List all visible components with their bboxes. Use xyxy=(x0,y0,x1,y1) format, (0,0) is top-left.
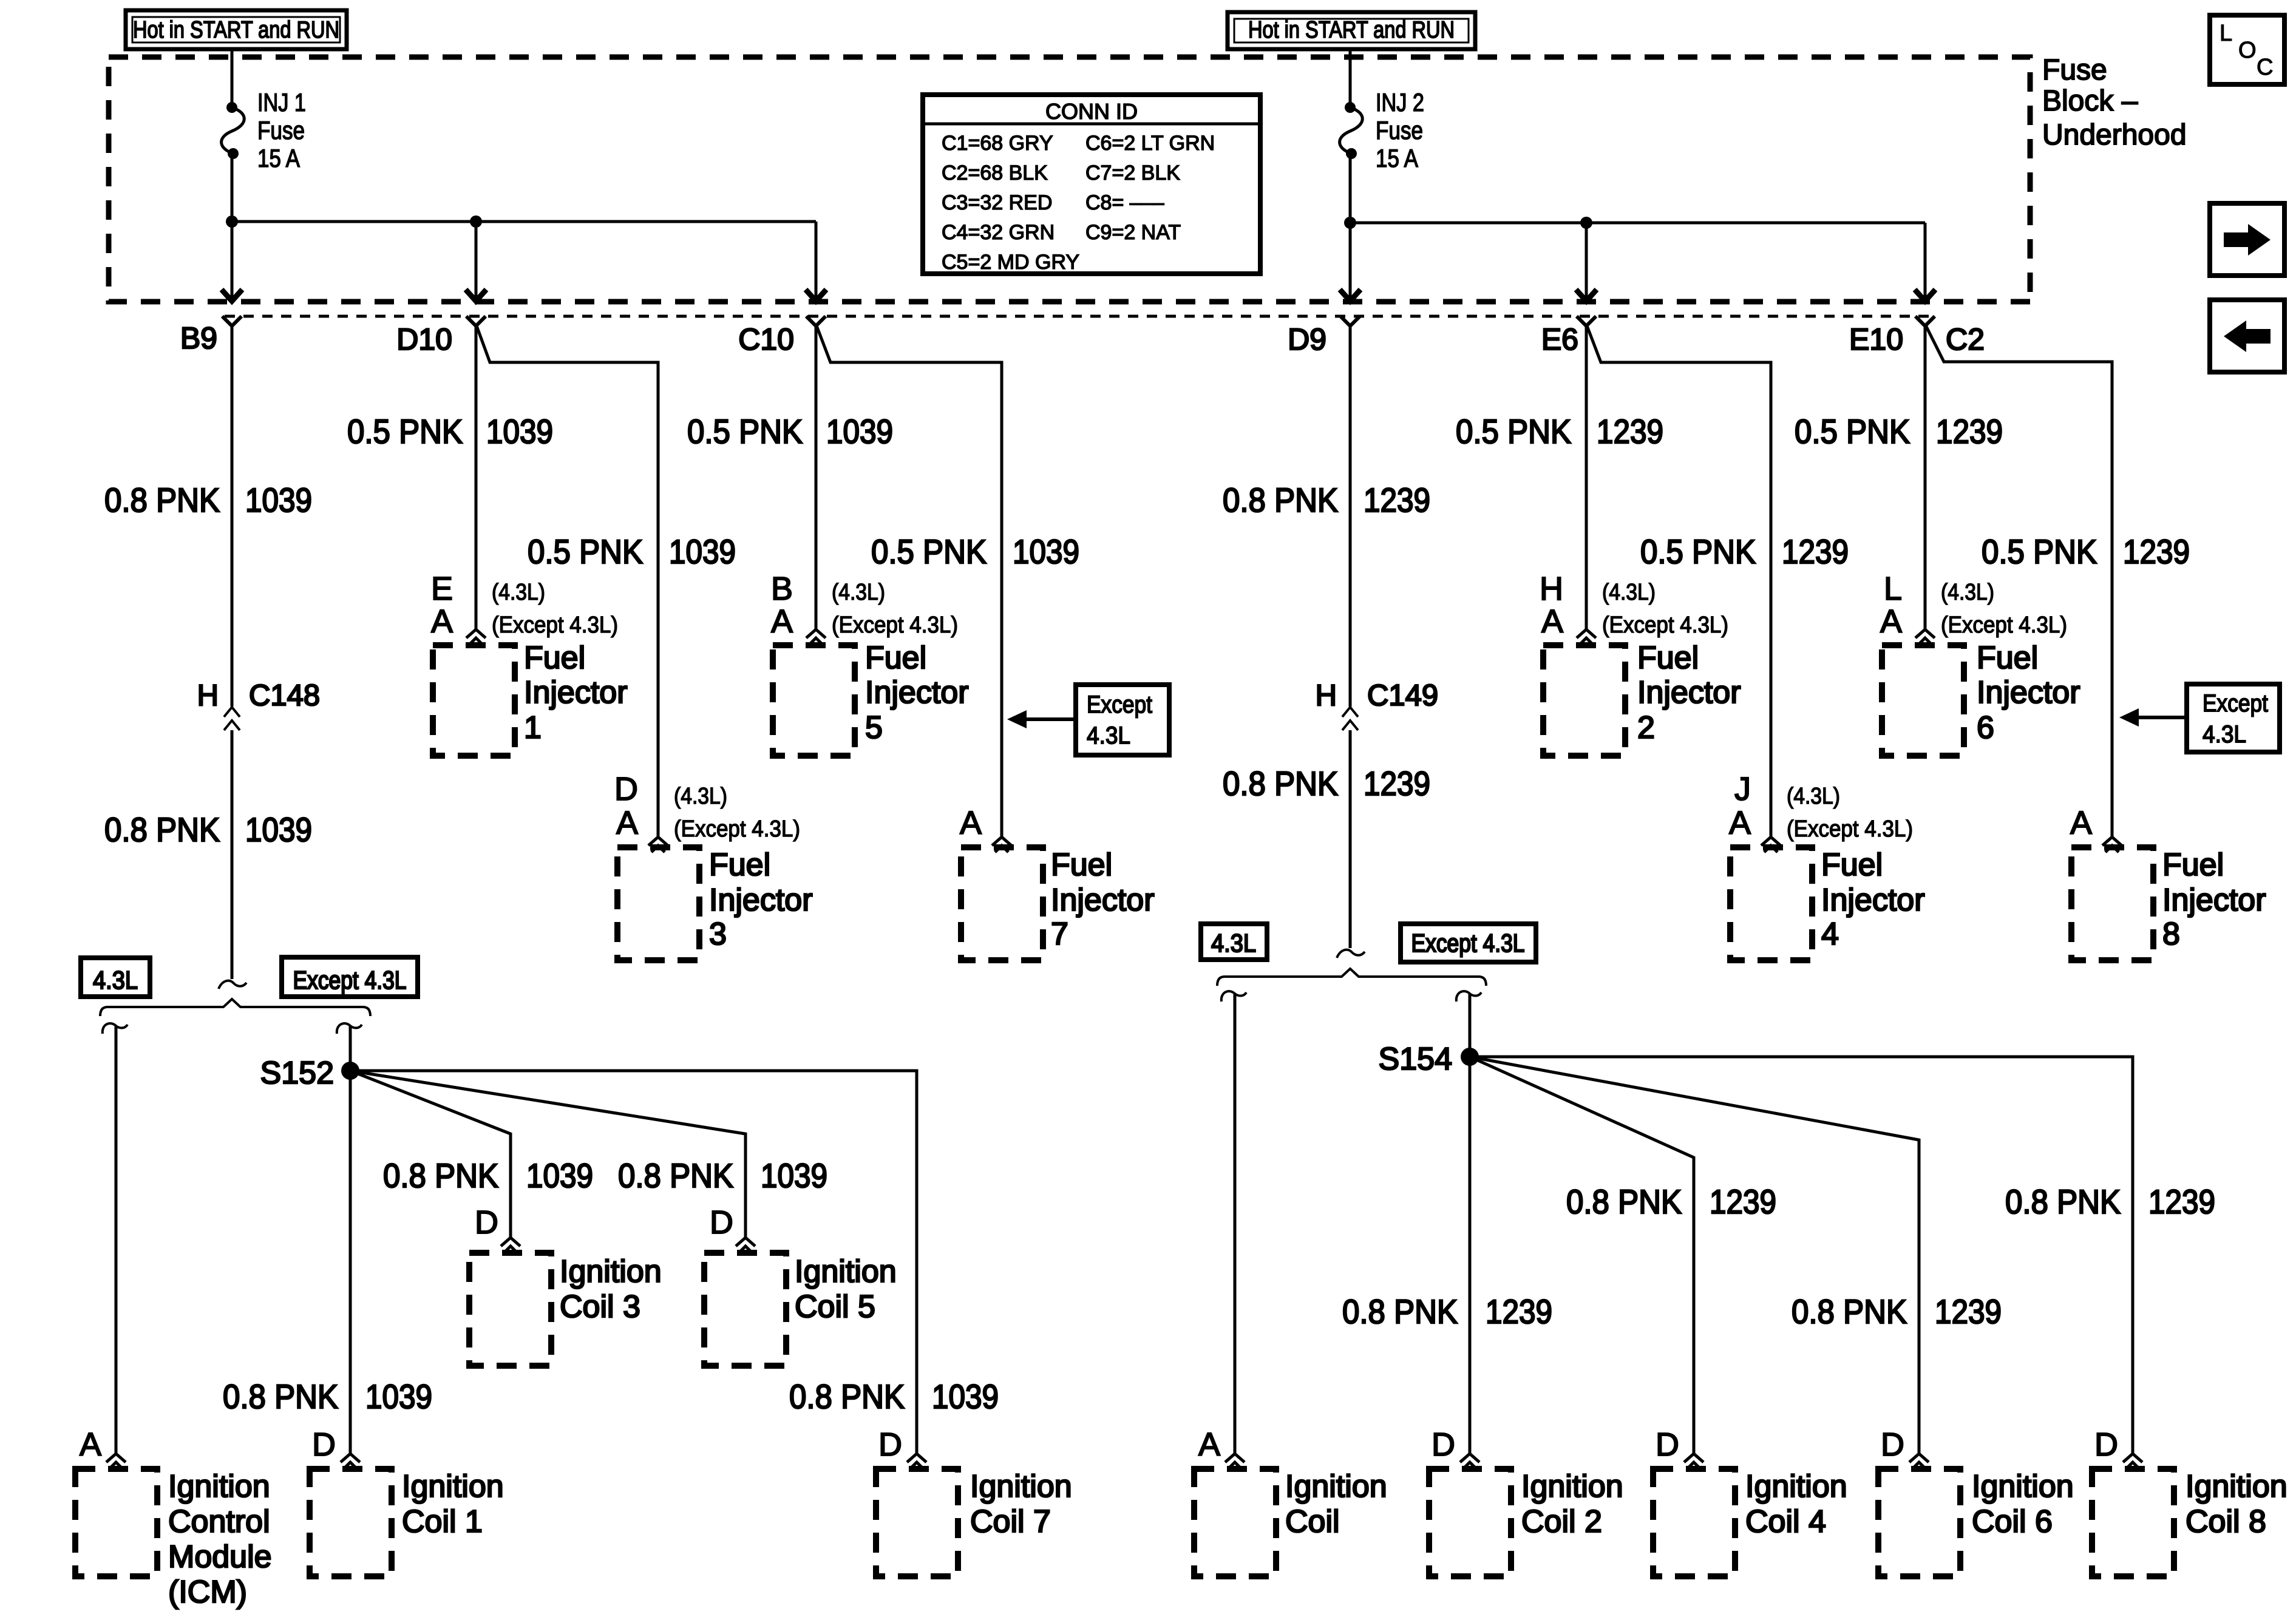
svg-text:1239: 1239 xyxy=(1364,764,1430,802)
ignition coil 3 xyxy=(469,1253,551,1366)
svg-text:E10: E10 xyxy=(1849,322,1903,356)
inline connector C148 pin H xyxy=(224,707,240,730)
wire 0.5 PNK 1239 from E6 to Fuel Injector 2 xyxy=(1585,324,1588,629)
svg-text:8: 8 xyxy=(2162,917,2180,952)
splice S154 xyxy=(1461,1048,1479,1066)
svg-text:C2: C2 xyxy=(1946,322,1985,356)
svg-text:(Except 4.3L): (Except 4.3L) xyxy=(1787,816,1913,842)
svg-text:4.3L: 4.3L xyxy=(1087,722,1130,749)
svg-text:(Except 4.3L): (Except 4.3L) xyxy=(832,612,958,638)
wire from INJ 2 fuse to branch xyxy=(1349,158,1352,223)
svg-text:Fuel: Fuel xyxy=(709,847,770,883)
svg-text:C8= –––: C8= ––– xyxy=(1085,191,1164,214)
svg-text:Ignition: Ignition xyxy=(168,1469,270,1504)
connector pins L/A at Fuel Injector 6 xyxy=(1915,629,1935,638)
svg-text:Injector: Injector xyxy=(1821,883,1925,918)
svg-text:D: D xyxy=(1432,1426,1455,1463)
svg-text:D: D xyxy=(614,771,638,807)
svg-text:Coil: Coil xyxy=(1285,1504,1340,1539)
wire end squiggle at 4.3L split (right) xyxy=(1337,950,1365,958)
svg-text:Injector: Injector xyxy=(865,675,969,710)
wire start squiggle (Except 4.3L branch left) xyxy=(337,1023,362,1034)
svg-text:0.5 PNK: 0.5 PNK xyxy=(1456,412,1571,450)
svg-text:C10: C10 xyxy=(738,322,794,356)
connector pin A at ignition coil (4.3L) xyxy=(1225,1454,1245,1462)
svg-text:Ignition: Ignition xyxy=(402,1469,504,1504)
svg-text:Fuse: Fuse xyxy=(1376,116,1423,144)
connector pins E/A at Fuel Injector 1 xyxy=(466,629,486,638)
wire to terminal C10 xyxy=(815,222,818,300)
arrowhead into B9 xyxy=(222,290,242,301)
svg-text:3: 3 xyxy=(709,917,727,952)
svg-text:(4.3L): (4.3L) xyxy=(1941,580,1994,605)
junction at D9 feed xyxy=(1344,217,1356,229)
svg-text:E: E xyxy=(431,571,453,607)
ignition coil 4 xyxy=(1653,1469,1735,1576)
connector pin D at ignition coil 4 xyxy=(1684,1454,1703,1462)
svg-text:0.8 PNK: 0.8 PNK xyxy=(1566,1182,1682,1221)
wire from INJ 1 fuse to branch xyxy=(231,158,234,222)
svg-text:D: D xyxy=(1656,1426,1679,1463)
connector pin D at Ignition Coil 3 xyxy=(501,1238,520,1246)
arrowhead into D9 xyxy=(1340,290,1360,301)
connector pin D at ignition coil 7 xyxy=(907,1454,926,1462)
connector pins at Fuel Injector 4 xyxy=(1761,837,1781,846)
svg-text:C1=68 GRY: C1=68 GRY xyxy=(942,132,1053,155)
svg-text:1239: 1239 xyxy=(1782,532,1849,571)
svg-text:0.5 PNK: 0.5 PNK xyxy=(528,532,643,571)
svg-text:1239: 1239 xyxy=(1597,412,1663,450)
wire 0.5 PNK 1039 from C10 to Fuel Injector 5 xyxy=(815,324,818,629)
forward-arrow navigation box xyxy=(2210,203,2284,276)
connector pin D at ignition coil 1 xyxy=(341,1454,360,1462)
fuse INJ 1 Fuse 15 A xyxy=(222,102,245,159)
svg-text:Fuel: Fuel xyxy=(2162,847,2224,883)
wire 0.8 PNK 1039 S152 to Ignition Coil 3 xyxy=(350,1071,511,1237)
connector pins B/A at Fuel Injector 5 xyxy=(806,629,826,638)
svg-text:B: B xyxy=(771,571,793,607)
svg-text:Except 4.3L: Except 4.3L xyxy=(1411,929,1525,957)
connector pins at Fuel Injector 3 xyxy=(648,837,668,846)
wire 0.8 PNK 1039 S152 to Ignition Coil 1 xyxy=(349,1071,352,1453)
ignition coil (4.3L) xyxy=(1194,1469,1276,1576)
svg-text:(4.3L): (4.3L) xyxy=(492,580,545,605)
svg-text:1239: 1239 xyxy=(2123,532,2190,571)
svg-text:Injector: Injector xyxy=(2162,883,2266,918)
svg-text:B9: B9 xyxy=(180,321,217,355)
svg-text:E6: E6 xyxy=(1541,322,1578,356)
svg-text:Coil 8: Coil 8 xyxy=(2186,1504,2266,1539)
svg-text:(4.3L): (4.3L) xyxy=(674,784,727,809)
ignition coil 2 xyxy=(1429,1469,1511,1576)
junction at E6 feed xyxy=(1580,217,1592,229)
svg-text:1039: 1039 xyxy=(761,1156,827,1195)
wire start squiggle (4.3L branch left) xyxy=(103,1023,127,1034)
svg-text:A: A xyxy=(1729,805,1751,841)
wire to terminal E6 xyxy=(1585,223,1588,300)
svg-text:0.8 PNK: 0.8 PNK xyxy=(223,1377,338,1415)
svg-text:Fuel: Fuel xyxy=(1637,640,1699,676)
svg-text:A: A xyxy=(960,805,982,841)
svg-text:Except: Except xyxy=(1087,691,1152,718)
svg-text:0.8 PNK: 0.8 PNK xyxy=(104,481,220,519)
svg-text:Fuel: Fuel xyxy=(1821,847,1883,883)
callout arrow to Fuel Injector 8 wire xyxy=(2136,716,2187,719)
wire 0.8 PNK 1039 from B9 xyxy=(231,324,234,707)
svg-text:S152: S152 xyxy=(260,1056,334,1091)
wire 4.3L branch to Ignition Control Module xyxy=(115,1026,118,1453)
svg-text:(Except 4.3L): (Except 4.3L) xyxy=(492,612,618,638)
svg-text:0.8 PNK: 0.8 PNK xyxy=(1223,481,1338,519)
wire 0.8 PNK 1039 S152 to Ignition Coil 7 xyxy=(350,1071,917,1453)
svg-text:1: 1 xyxy=(524,710,542,745)
callout box "Except 4.3L" (right) xyxy=(2187,684,2280,752)
arrowhead into D10 xyxy=(466,290,486,301)
svg-text:Coil 6: Coil 6 xyxy=(1972,1504,2053,1539)
brace selecting 4.3L vs Except 4.3L (left) xyxy=(100,999,370,1016)
svg-text:1239: 1239 xyxy=(1710,1182,1776,1221)
svg-text:H: H xyxy=(1540,571,1563,607)
svg-text:0.8 PNK: 0.8 PNK xyxy=(789,1377,905,1415)
wire 0.8 PNK 1039 to engine harness xyxy=(231,730,234,979)
arrowhead into C10 xyxy=(806,290,826,301)
wire to terminal E10 xyxy=(1924,223,1927,300)
svg-text:0.5 PNK: 0.5 PNK xyxy=(1640,532,1756,571)
svg-text:1039: 1039 xyxy=(932,1377,999,1415)
svg-text:L: L xyxy=(1884,571,1902,607)
connector pin A at ignition control module (ICM) xyxy=(106,1454,126,1462)
CONN ID table header separator xyxy=(923,123,1260,126)
wire 4.3L branch to Ignition Coil xyxy=(1234,994,1237,1453)
svg-text:Except 4.3L: Except 4.3L xyxy=(293,966,407,994)
svg-text:1039: 1039 xyxy=(826,412,893,450)
wire 0.8 PNK 1039 S152 to Ignition Coil 5 xyxy=(350,1071,746,1237)
wire from Hot in START and RUN to INJ 2 fuse xyxy=(1349,49,1352,103)
option box "4.3L" (right) xyxy=(1201,924,1267,960)
fuel injector 7 xyxy=(961,847,1043,960)
fuel injector 3 xyxy=(617,847,699,960)
svg-text:Injector: Injector xyxy=(1637,675,1741,710)
svg-text:0.8 PNK: 0.8 PNK xyxy=(1792,1292,1907,1331)
svg-text:Ignition: Ignition xyxy=(1285,1469,1387,1504)
svg-text:1039: 1039 xyxy=(245,481,312,519)
wire 0.8 PNK 1239 S154 to Ignition Coil 8 xyxy=(1470,1057,2133,1453)
label box "Hot in START and RUN" (right) xyxy=(1228,12,1475,49)
svg-text:(4.3L): (4.3L) xyxy=(1787,784,1840,809)
svg-text:15 A: 15 A xyxy=(1376,144,1418,172)
svg-text:C5=2 MD GRY: C5=2 MD GRY xyxy=(942,251,1079,274)
svg-text:C7=2 BLK: C7=2 BLK xyxy=(1085,161,1180,185)
svg-text:H: H xyxy=(197,679,219,712)
svg-text:C149: C149 xyxy=(1367,679,1438,712)
svg-text:Coil 5: Coil 5 xyxy=(795,1289,875,1324)
junction at D10 feed xyxy=(470,215,482,228)
junction at B9 feed xyxy=(226,215,238,228)
fuel injector 2 xyxy=(1543,645,1625,756)
svg-text:1239: 1239 xyxy=(1935,1292,2002,1331)
wire branch 0.5 PNK 1039 from C10 to Fuel Injector 7 xyxy=(816,324,1002,836)
option box "4.3L" (left) xyxy=(81,958,150,997)
svg-text:1239: 1239 xyxy=(1364,481,1430,519)
svg-text:4: 4 xyxy=(1821,917,1839,952)
svg-text:4.3L: 4.3L xyxy=(1211,929,1256,957)
ignition coil 5 xyxy=(704,1253,786,1366)
arrowhead into E10 xyxy=(1915,290,1935,301)
wire branch 0.5 PNK 1039 from D10 to Fuel Injector 3 xyxy=(476,324,658,836)
svg-text:C9=2 NAT: C9=2 NAT xyxy=(1085,221,1181,244)
fuel injector 5 xyxy=(773,645,855,756)
connector terminal E10 xyxy=(1915,316,1935,326)
label box "Hot in START and RUN" (left) xyxy=(126,10,347,49)
svg-text:0.5 PNK: 0.5 PNK xyxy=(1982,532,2097,571)
svg-text:(4.3L): (4.3L) xyxy=(832,580,885,605)
wire start squiggle (Except 4.3L branch right) xyxy=(1456,991,1481,1002)
svg-text:Ignition: Ignition xyxy=(1521,1469,1623,1504)
svg-text:5: 5 xyxy=(865,710,883,745)
wire 0.8 PNK 1239 from D9 xyxy=(1349,324,1352,707)
svg-text:INJ 2: INJ 2 xyxy=(1376,88,1424,117)
svg-text:1039: 1039 xyxy=(486,412,553,450)
option box "Except 4.3L" (right) xyxy=(1401,924,1536,962)
connector terminal D10 xyxy=(466,316,486,326)
svg-text:Injector: Injector xyxy=(709,883,813,918)
svg-text:Ignition: Ignition xyxy=(1745,1469,1847,1504)
svg-text:2: 2 xyxy=(1637,710,1655,745)
wire to terminal D9 xyxy=(1349,223,1352,300)
connector terminal C10 xyxy=(806,316,826,326)
wire to splice S152 xyxy=(349,1026,352,1071)
callout box "Except 4.3L" (left) xyxy=(1076,685,1169,755)
svg-text:Fuel: Fuel xyxy=(524,640,585,676)
svg-text:Module: Module xyxy=(168,1539,272,1575)
wire 0.5 PNK 1239 from E10 to Fuel Injector 6 xyxy=(1924,324,1927,629)
wire 0.8 PNK 1239 to engine harness xyxy=(1349,730,1352,948)
svg-text:1039: 1039 xyxy=(365,1377,432,1415)
svg-text:Injector: Injector xyxy=(524,675,628,710)
svg-text:0.8 PNK: 0.8 PNK xyxy=(104,810,220,849)
svg-text:6: 6 xyxy=(1977,710,1994,745)
svg-text:Coil 7: Coil 7 xyxy=(970,1504,1051,1539)
svg-text:H: H xyxy=(1316,679,1337,712)
svg-text:D: D xyxy=(475,1204,498,1241)
Fuse Block - Underhood dashed boundary xyxy=(109,57,2030,302)
LOC (page location) symbol box xyxy=(2210,15,2284,84)
splice S152 xyxy=(341,1062,359,1080)
svg-text:A: A xyxy=(1541,603,1563,640)
svg-text:(ICM): (ICM) xyxy=(168,1575,247,1610)
svg-text:0.5 PNK: 0.5 PNK xyxy=(347,412,463,450)
connector terminal E6 xyxy=(1577,316,1596,326)
svg-text:Ignition: Ignition xyxy=(560,1254,662,1289)
svg-text:1239: 1239 xyxy=(2148,1182,2215,1221)
svg-text:A: A xyxy=(431,603,453,640)
svg-text:0.8 PNK: 0.8 PNK xyxy=(2005,1182,2121,1221)
svg-text:D: D xyxy=(878,1426,902,1463)
svg-text:C148: C148 xyxy=(249,679,320,712)
svg-text:Ignition: Ignition xyxy=(1972,1469,2074,1504)
svg-text:D9: D9 xyxy=(1288,322,1326,356)
svg-text:Except: Except xyxy=(2203,690,2268,717)
svg-text:Injector: Injector xyxy=(1977,675,2080,710)
wire 0.8 PNK 1239 S154 to Ignition Coil 2 xyxy=(1469,1057,1472,1453)
svg-text:D10: D10 xyxy=(396,322,452,356)
svg-text:15 A: 15 A xyxy=(257,144,300,172)
svg-text:Coil 3: Coil 3 xyxy=(560,1289,640,1324)
svg-text:Fuse: Fuse xyxy=(257,116,305,144)
fuel injector 4 xyxy=(1730,847,1812,960)
back-arrow navigation box xyxy=(2210,300,2284,372)
svg-text:4.3L: 4.3L xyxy=(2203,721,2246,748)
fuse INJ 2 Fuse 15 A xyxy=(1340,102,1363,159)
fuel injector 1 xyxy=(433,645,515,756)
svg-text:Hot in START and RUN: Hot in START and RUN xyxy=(1248,17,1455,43)
svg-text:C: C xyxy=(2257,55,2273,80)
wire branch 0.5 PNK 1239 from E6 to Fuel Injector 4 xyxy=(1586,324,1771,836)
svg-text:A: A xyxy=(1880,603,1902,640)
arrowhead into E6 xyxy=(1576,290,1597,301)
svg-text:Coil 1: Coil 1 xyxy=(402,1504,483,1539)
svg-text:A: A xyxy=(2070,805,2092,841)
brace selecting 4.3L vs Except 4.3L (right) xyxy=(1217,969,1486,986)
svg-text:A: A xyxy=(80,1426,101,1463)
ignition coil 1 xyxy=(310,1469,392,1576)
svg-text:C6=2 LT GRN: C6=2 LT GRN xyxy=(1085,132,1215,155)
svg-text:Ignition: Ignition xyxy=(2186,1469,2288,1504)
svg-text:D: D xyxy=(312,1426,336,1463)
wire bus inside fuse block (left) xyxy=(232,220,816,223)
svg-text:C2=68 BLK: C2=68 BLK xyxy=(942,161,1048,185)
wire 0.5 PNK 1039 from D10 to Fuel Injector 1 xyxy=(475,324,478,629)
svg-text:C4=32 GRN: C4=32 GRN xyxy=(942,221,1055,244)
svg-text:Hot in START and RUN: Hot in START and RUN xyxy=(133,17,339,43)
svg-text:0.8 PNK: 0.8 PNK xyxy=(1342,1292,1458,1331)
connector pin D at ignition coil 8 xyxy=(2123,1454,2142,1462)
svg-text:1039: 1039 xyxy=(669,532,736,571)
ignition coil 7 xyxy=(876,1469,958,1576)
ignition coil 6 xyxy=(1878,1469,1960,1576)
svg-text:0.8 PNK: 0.8 PNK xyxy=(383,1156,498,1195)
wire to terminal B9 xyxy=(231,222,234,300)
connector pins H/A at Fuel Injector 2 xyxy=(1577,629,1596,638)
wire bus inside fuse block (right) xyxy=(1350,222,1925,225)
svg-text:0.5 PNK: 0.5 PNK xyxy=(871,532,987,571)
svg-text:0.5 PNK: 0.5 PNK xyxy=(687,412,803,450)
svg-text:4.3L: 4.3L xyxy=(93,966,138,994)
svg-text:D: D xyxy=(1881,1426,1904,1463)
connector C1/C2 thin dashed line xyxy=(225,315,1937,318)
svg-text:J: J xyxy=(1734,771,1751,807)
svg-text:INJ 1: INJ 1 xyxy=(257,88,306,117)
svg-text:D: D xyxy=(710,1204,733,1241)
svg-text:1039: 1039 xyxy=(1013,532,1079,571)
connector pin D at Ignition Coil 5 xyxy=(736,1238,755,1246)
wire 0.8 PNK 1239 S154 to Ignition Coil 4 xyxy=(1470,1057,1694,1453)
svg-text:Fuse: Fuse xyxy=(2042,54,2107,86)
svg-text:1039: 1039 xyxy=(526,1156,593,1195)
svg-text:0.8 PNK: 0.8 PNK xyxy=(618,1156,733,1195)
ignition coil 8 xyxy=(2092,1469,2174,1576)
connector pin D at ignition coil 2 xyxy=(1460,1454,1479,1462)
svg-text:Block –: Block – xyxy=(2042,85,2138,117)
connector pins at Fuel Injector 7 xyxy=(992,837,1011,846)
svg-text:Control: Control xyxy=(168,1504,270,1539)
connector pins at Fuel Injector 8 xyxy=(2102,837,2122,846)
fuel injector 6 xyxy=(1882,645,1964,756)
wire start squiggle (4.3L branch right) xyxy=(1221,991,1246,1002)
svg-text:D: D xyxy=(2094,1426,2118,1463)
svg-text:Injector: Injector xyxy=(1051,883,1155,918)
svg-text:0.5 PNK: 0.5 PNK xyxy=(1795,412,1910,450)
connector terminal B9 xyxy=(222,316,242,326)
svg-text:L: L xyxy=(2220,21,2232,46)
callout arrow to Fuel Injector 7 wire xyxy=(1024,717,1076,721)
svg-text:1239: 1239 xyxy=(1936,412,2003,450)
svg-text:O: O xyxy=(2238,38,2257,63)
wire to terminal D10 xyxy=(475,222,478,300)
wire 0.8 PNK 1239 S154 to Ignition Coil 6 xyxy=(1470,1057,1919,1453)
svg-text:S154: S154 xyxy=(1379,1042,1452,1077)
ignition control module (ICM) xyxy=(75,1469,157,1576)
svg-text:Fuel: Fuel xyxy=(1051,847,1112,883)
wire to splice S154 xyxy=(1469,994,1472,1057)
svg-text:7: 7 xyxy=(1051,917,1068,952)
connector pin D at ignition coil 6 xyxy=(1909,1454,1929,1462)
svg-text:Ignition: Ignition xyxy=(795,1254,897,1289)
wire from Hot in START and RUN to INJ 1 fuse xyxy=(231,49,234,103)
svg-text:Ignition: Ignition xyxy=(970,1469,1072,1504)
wire end squiggle at 4.3L split xyxy=(219,981,246,989)
svg-text:C3=32 RED: C3=32 RED xyxy=(942,191,1052,214)
svg-text:Coil 4: Coil 4 xyxy=(1745,1504,1826,1539)
svg-text:A: A xyxy=(771,603,793,640)
inline connector C149 pin H xyxy=(1342,707,1358,730)
svg-text:Fuel: Fuel xyxy=(865,640,926,676)
CONN ID table box xyxy=(923,95,1260,274)
svg-text:(Except 4.3L): (Except 4.3L) xyxy=(674,816,800,842)
svg-text:(Except 4.3L): (Except 4.3L) xyxy=(1941,612,2067,638)
svg-text:Underhood: Underhood xyxy=(2042,119,2187,151)
svg-text:Fuel: Fuel xyxy=(1977,640,2038,676)
fuel injector 8 xyxy=(2071,847,2153,960)
svg-text:(Except 4.3L): (Except 4.3L) xyxy=(1602,612,1728,638)
svg-text:A: A xyxy=(616,805,638,841)
svg-text:1039: 1039 xyxy=(245,810,312,849)
svg-text:0.8 PNK: 0.8 PNK xyxy=(1223,764,1338,802)
svg-text:(4.3L): (4.3L) xyxy=(1602,580,1656,605)
connector terminal D9 xyxy=(1340,316,1360,326)
svg-text:A: A xyxy=(1198,1426,1220,1463)
svg-text:Coil 2: Coil 2 xyxy=(1521,1504,1602,1539)
option box "Except 4.3L" (left) xyxy=(282,957,418,997)
wire branch 0.5 PNK 1239 from C2 to Fuel Injector 8 xyxy=(1925,324,2112,836)
svg-text:CONN ID: CONN ID xyxy=(1045,99,1138,124)
svg-text:1239: 1239 xyxy=(1486,1292,1552,1331)
